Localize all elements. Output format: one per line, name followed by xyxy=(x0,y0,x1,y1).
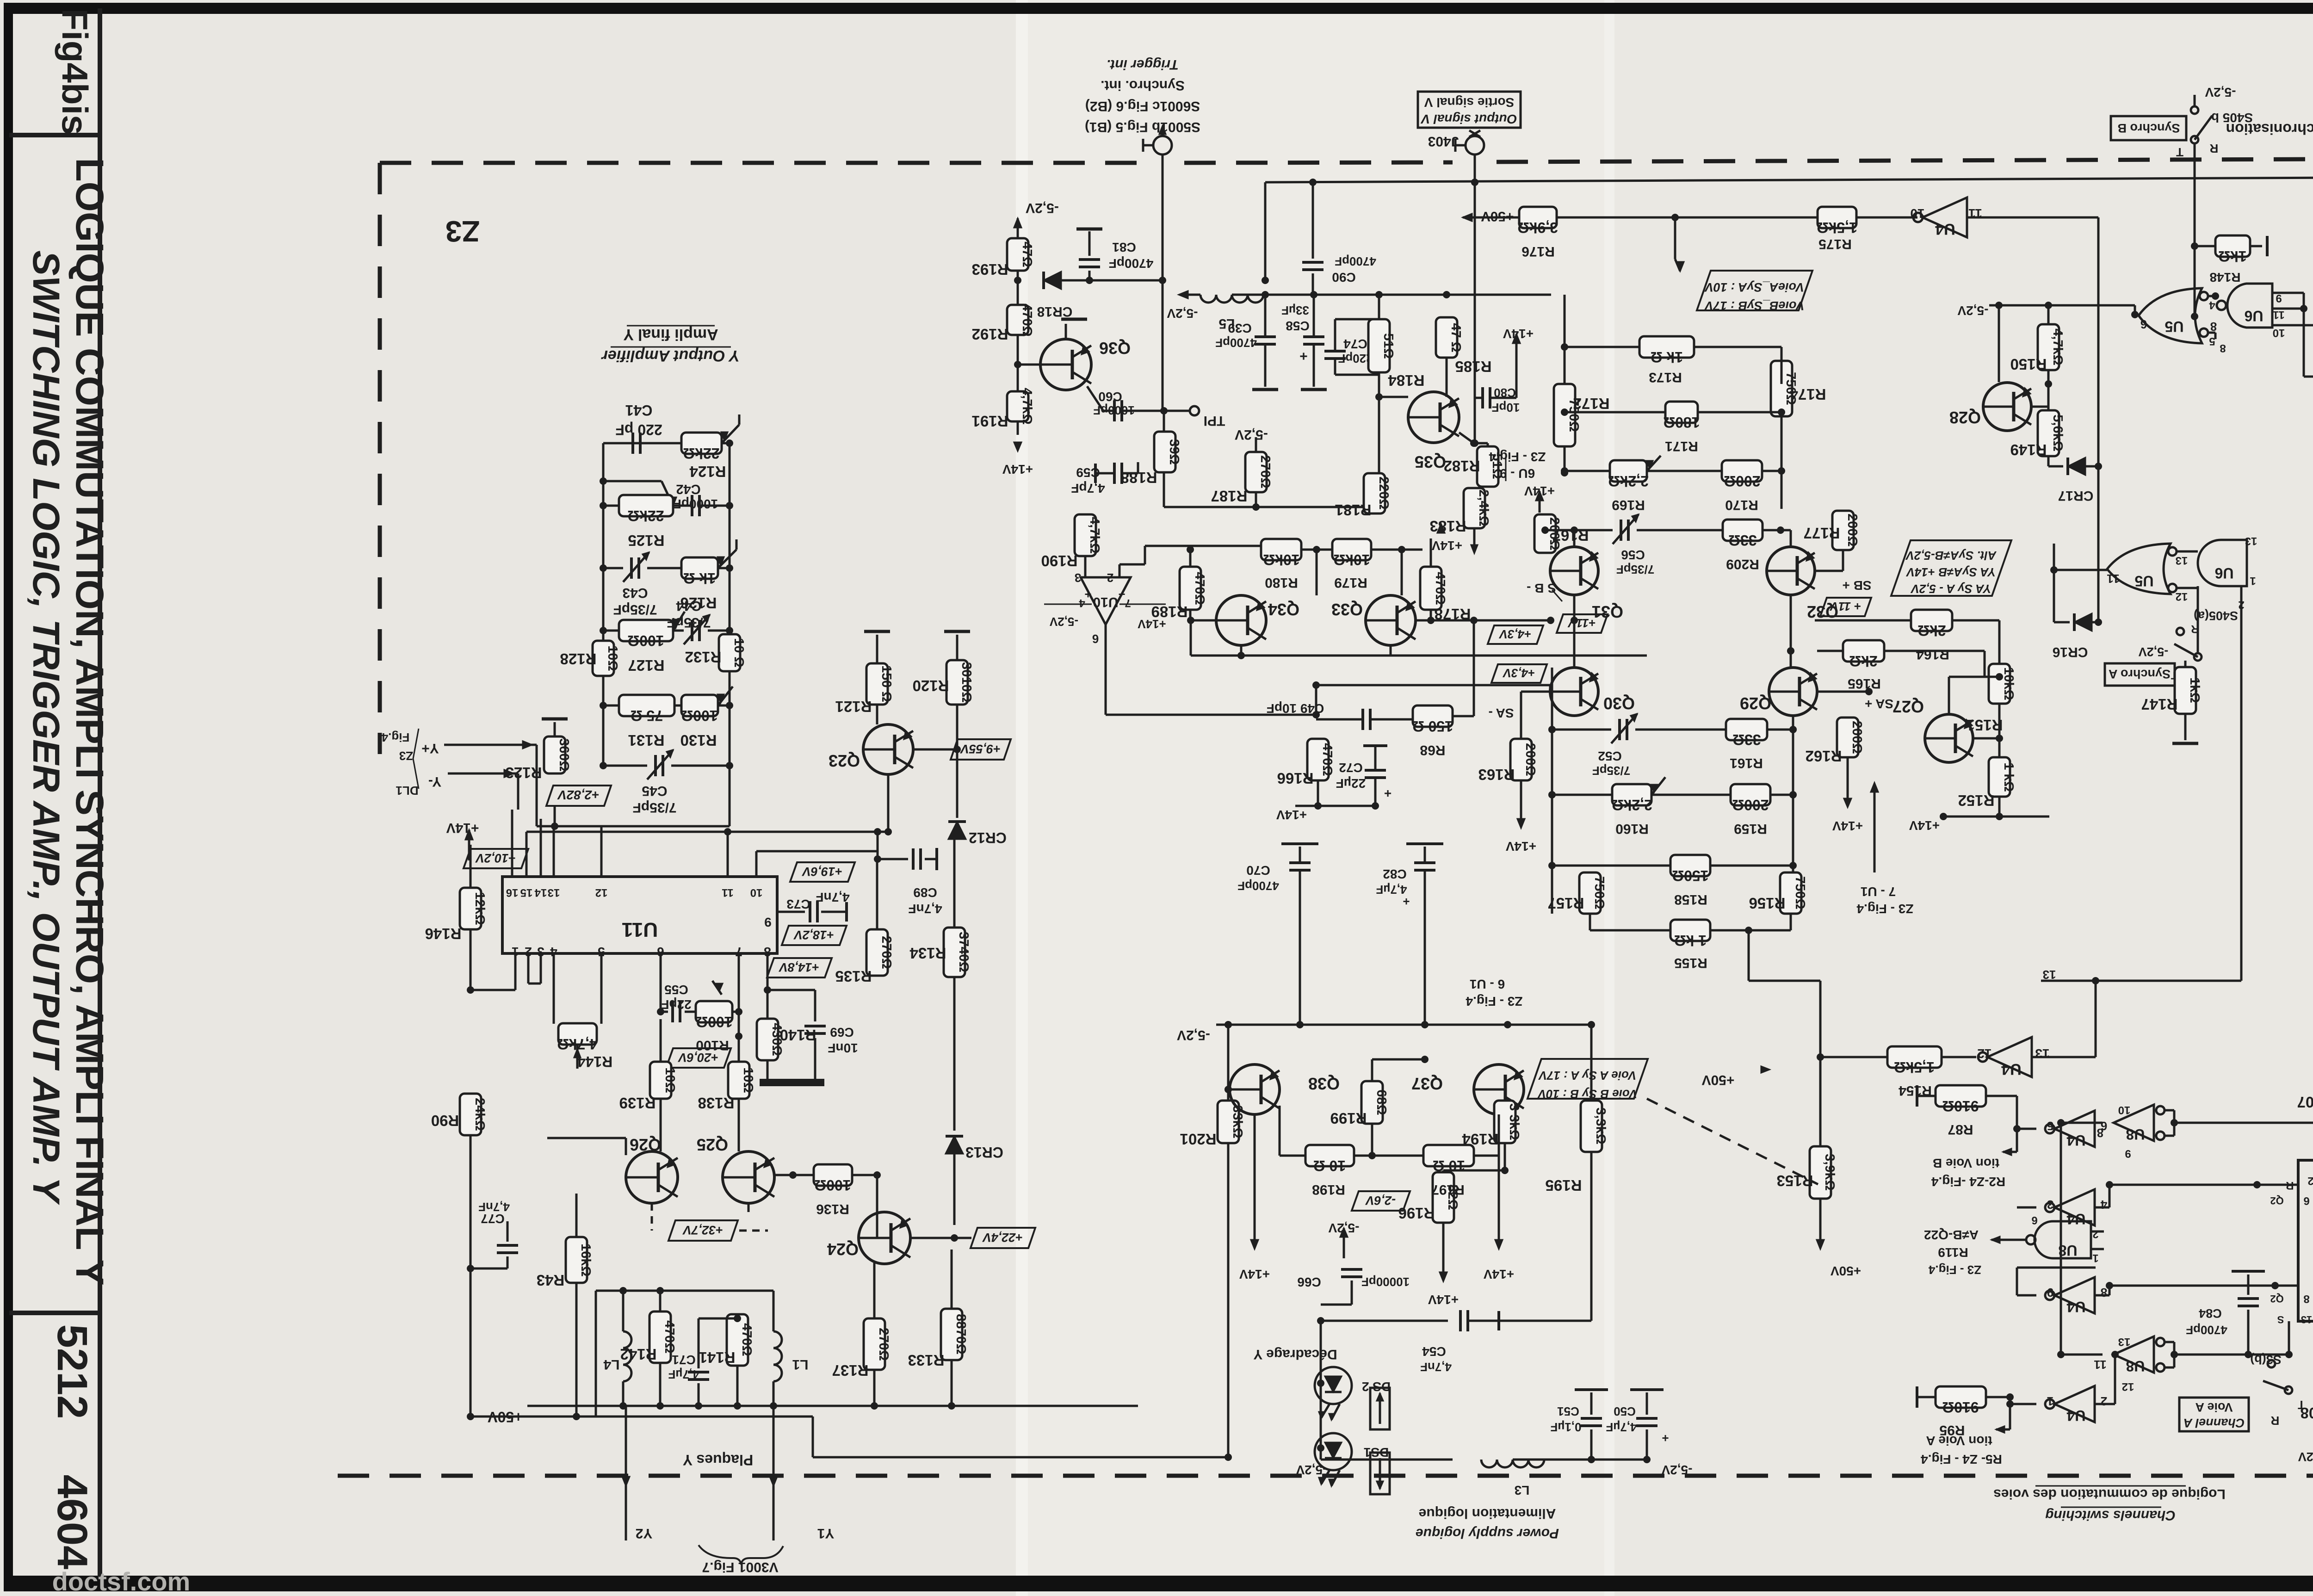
resistor R150 xyxy=(2038,324,2059,370)
svg-text:4,7kΩ: 4,7kΩ xyxy=(1020,388,1034,425)
svg-text:+14V: +14V xyxy=(1239,1267,1270,1281)
wire q31-q30 col xyxy=(1573,595,1576,668)
wire q29 col down xyxy=(1792,716,1794,914)
capacitor C60 xyxy=(1087,386,1103,411)
resistor R190 xyxy=(1075,514,1096,556)
wire R135 top xyxy=(876,859,878,929)
resistor R43 xyxy=(566,1237,587,1283)
svg-text:16: 16 xyxy=(506,886,519,899)
svg-text:3: 3 xyxy=(537,945,544,959)
svg-text:4: 4 xyxy=(2100,1198,2107,1212)
svg-text:R192: R192 xyxy=(972,326,1008,343)
svg-text:R141: R141 xyxy=(699,1349,736,1366)
svg-text:10Ω: 10Ω xyxy=(662,1067,677,1093)
wire U11 pin4 down xyxy=(553,969,555,1024)
svg-text:11: 11 xyxy=(2094,1358,2107,1372)
svg-text:9: 9 xyxy=(2047,1286,2053,1299)
NOR U5 d xyxy=(2107,544,2171,594)
wire R147 xyxy=(2184,661,2187,667)
svg-text:10kΩ: 10kΩ xyxy=(2001,667,2016,700)
capacitor C50 xyxy=(1646,1429,1648,1460)
svg-text:YA SyA≠B +14V: YA SyA≠B +14V xyxy=(1905,565,1996,579)
diode CR16 xyxy=(2074,613,2092,631)
svg-text:470Ω: 470Ω xyxy=(739,1323,754,1356)
svg-text:U11: U11 xyxy=(622,918,658,941)
wire U6a out xyxy=(2194,316,2195,317)
arrow +14V q38 xyxy=(1254,1114,1256,1240)
svg-text:C60: C60 xyxy=(1098,390,1122,404)
svg-text:Q2: Q2 xyxy=(2270,1195,2283,1206)
wire U4d xyxy=(2017,1206,2036,1209)
svg-text:-5,2V: -5,2V xyxy=(1296,1463,1327,1477)
wire R134 top xyxy=(953,838,956,928)
arrow R100 adjust xyxy=(712,981,722,995)
arrow +14V left xyxy=(465,830,473,840)
wire R199 xyxy=(1371,1124,1373,1156)
transistor Q35 xyxy=(1408,392,1459,443)
arrow +14V col xyxy=(1017,421,1019,435)
wire led link xyxy=(1351,1281,1353,1305)
svg-text:33µF: 33µF xyxy=(1281,303,1309,317)
svg-text:4700pF: 4700pF xyxy=(1109,256,1154,271)
resistor R123 xyxy=(544,736,565,773)
svg-text:+4,3V: +4,3V xyxy=(1502,666,1535,680)
svg-text:1 kΩ: 1 kΩ xyxy=(2001,762,2016,792)
resistor R144 xyxy=(558,1023,597,1045)
svg-text:R155: R155 xyxy=(1674,955,1707,971)
svg-text:+10,2V: +10,2V xyxy=(475,851,516,865)
dashed frame bottom xyxy=(338,1474,2313,1478)
svg-text:+14V: +14V xyxy=(1484,1267,1514,1281)
svg-text:R185: R185 xyxy=(1455,358,1492,375)
svg-text:Trigger int.: Trigger int. xyxy=(1107,57,1179,72)
resistor R171 xyxy=(1665,402,1698,423)
wire led bottom xyxy=(1321,1459,1453,1461)
svg-text:6: 6 xyxy=(1092,632,1099,646)
resistor R164 xyxy=(1911,610,1952,631)
svg-text:2: 2 xyxy=(2307,1175,2313,1187)
trimmer C56 xyxy=(1620,520,1622,541)
resistor R187 xyxy=(1245,452,1267,492)
svg-text:+14V: +14V xyxy=(1524,484,1555,498)
svg-text:47Ω: 47Ω xyxy=(1020,241,1034,267)
svg-text:1k Ω: 1k Ω xyxy=(683,570,716,587)
wire connector down xyxy=(1162,155,1164,409)
svg-text:Voie B Sy B : 10V: Voie B Sy B : 10V xyxy=(1537,1087,1637,1101)
svg-text:U4: U4 xyxy=(2066,1211,2085,1227)
wire U6c out r147 xyxy=(2197,586,2199,653)
callout +4,3V a xyxy=(1488,625,1543,644)
svg-text:+14V: +14V xyxy=(1832,819,1863,833)
svg-text:10 Ω: 10 Ω xyxy=(1313,1157,1346,1174)
svg-text:150 Ω: 150 Ω xyxy=(1412,718,1453,735)
svg-text:13: 13 xyxy=(2176,554,2188,567)
svg-text:C52: C52 xyxy=(1598,749,1621,763)
svg-text:Décadrage Y: Décadrage Y xyxy=(1253,1347,1337,1362)
wire Q34-Q33 emitters xyxy=(1240,645,1243,656)
svg-text:13: 13 xyxy=(2301,1314,2312,1325)
svg-text:7/35pF: 7/35pF xyxy=(632,800,676,815)
svg-text:8: 8 xyxy=(2303,1293,2309,1305)
svg-text:1kΩ: 1kΩ xyxy=(2218,248,2246,265)
svg-text:6: 6 xyxy=(2140,317,2147,331)
wire -5,2V q28 xyxy=(1989,305,2144,311)
trimmer C52 xyxy=(1618,719,1621,740)
inductor L4 xyxy=(623,1331,631,1348)
resistor R194 xyxy=(1494,1101,1515,1143)
svg-text:22kΩ: 22kΩ xyxy=(683,445,719,462)
wire Q36 base xyxy=(1018,364,1040,366)
svg-text:Z3 - Fig.4: Z3 - Fig.4 xyxy=(1466,994,1522,1008)
capacitor C82 xyxy=(1424,847,1426,861)
wire R189 bottom xyxy=(1189,610,1192,620)
wire L5 bus xyxy=(1232,294,1551,296)
inverter U4 d xyxy=(2054,1189,2095,1225)
svg-text:8: 8 xyxy=(2101,1286,2107,1299)
arrow R160 adjust xyxy=(1651,777,1665,795)
wire R146 bottom xyxy=(470,929,472,990)
diode CR12 xyxy=(948,822,966,839)
wire +50V rail xyxy=(527,1405,1138,1407)
svg-text:4,7kΩ: 4,7kΩ xyxy=(1087,517,1102,554)
svg-text:R87: R87 xyxy=(1948,1122,1973,1137)
U11 pin 5 xyxy=(600,953,603,969)
wire ladder left rail xyxy=(602,443,605,766)
svg-text:CR12: CR12 xyxy=(969,829,1007,846)
svg-text:Z3 - Fig.4: Z3 - Fig.4 xyxy=(1928,1263,1981,1277)
wire y1341 to R164 xyxy=(1815,619,1911,622)
svg-text:270Ω: 270Ω xyxy=(879,936,894,969)
diode CR17 xyxy=(2068,458,2085,475)
resistor R181 xyxy=(1364,473,1385,513)
wire R157 link xyxy=(1552,913,1590,914)
U11 pin 12 xyxy=(600,861,603,877)
svg-text:12: 12 xyxy=(595,886,608,899)
resistor R128 xyxy=(593,641,614,676)
wire y1407 R165 xyxy=(1817,650,1843,652)
svg-text:R137: R137 xyxy=(832,1362,869,1379)
wire Q38 emitter xyxy=(1280,1105,1300,1106)
svg-text:R184: R184 xyxy=(1388,372,1425,389)
wire Q33-R178 base xyxy=(1416,619,1431,622)
wire R201 xyxy=(1227,1025,1230,1101)
label Voie A box xyxy=(2179,1398,2249,1431)
svg-text:11: 11 xyxy=(2107,572,2120,586)
wire R133 xyxy=(951,1250,953,1309)
svg-text:10kΩ: 10kΩ xyxy=(1263,551,1299,568)
svg-text:2: 2 xyxy=(2092,1228,2098,1240)
svg-text:R90: R90 xyxy=(431,1112,459,1129)
gnd R120 xyxy=(956,635,959,660)
callout +11V right xyxy=(1820,598,1871,616)
wire TP1 col down xyxy=(1163,411,1165,507)
svg-text:R95: R95 xyxy=(1939,1423,1965,1438)
arrow 6U1 xyxy=(1507,814,1508,965)
svg-text:2: 2 xyxy=(1107,571,1113,585)
wire CR13 col xyxy=(953,977,956,1131)
wire Q26 collector box xyxy=(625,1138,627,1155)
svg-text:U4: U4 xyxy=(2066,1299,2085,1315)
svg-text:Q31: Q31 xyxy=(1592,602,1623,621)
resistor R147 xyxy=(2175,667,2196,714)
callout +9,55V xyxy=(951,739,1011,760)
resistor R131 xyxy=(619,695,674,716)
wire R162 xyxy=(1847,704,1848,718)
resistor R132 xyxy=(719,634,740,671)
svg-text:100Ω: 100Ω xyxy=(696,1014,732,1030)
wire bottom ladder xyxy=(537,825,730,828)
svg-text:100Ω: 100Ω xyxy=(814,1177,851,1194)
svg-text:Output signal V: Output signal V xyxy=(1420,112,1517,126)
IC U11 xyxy=(502,877,777,953)
wire U8a in xyxy=(2045,1122,2061,1123)
resistor R121 xyxy=(866,663,888,705)
capacitor C42 xyxy=(691,495,693,516)
wire R127 row xyxy=(603,630,619,632)
svg-text:47 Ω: 47 Ω xyxy=(1448,323,1463,353)
wire U10 out xyxy=(1105,625,1107,715)
svg-text:220Ω: 220Ω xyxy=(1376,476,1391,510)
switch S405b xyxy=(2191,136,2198,143)
svg-text:-5,2V: -5,2V xyxy=(1026,200,1059,216)
resistor R125 xyxy=(619,495,673,516)
wire Q37 to C54 xyxy=(1591,1320,1592,1321)
svg-text:C82: C82 xyxy=(1383,867,1406,881)
svg-text:1: 1 xyxy=(2250,575,2256,587)
svg-text:R130: R130 xyxy=(680,732,717,749)
svg-text:2,4kΩ: 2,4kΩ xyxy=(1476,489,1491,526)
svg-text:10Ω: 10Ω xyxy=(605,645,620,671)
dashed pointer xyxy=(1647,1099,1818,1184)
svg-text:470Ω: 470Ω xyxy=(662,1320,677,1354)
wire Q38 base xyxy=(1228,1089,1230,1090)
NAND U6 c xyxy=(2198,540,2247,586)
svg-text:C89: C89 xyxy=(913,885,937,900)
dashed frame top xyxy=(380,161,1143,165)
wire R176 tap xyxy=(1674,217,1676,259)
wire Q35 collector xyxy=(1446,392,1447,397)
transistor Q36 xyxy=(1040,339,1091,390)
svg-text:C50: C50 xyxy=(1614,1404,1636,1418)
wire R169 link xyxy=(1565,470,1610,471)
svg-text:12: 12 xyxy=(2176,590,2188,603)
arrow R169 adjust xyxy=(1647,456,1661,471)
svg-text:100Ω: 100Ω xyxy=(681,707,717,724)
wire R158 row xyxy=(1552,865,1670,867)
svg-text:R149: R149 xyxy=(2010,441,2047,458)
wire R176-R175 xyxy=(1557,217,1818,219)
svg-text:3: 3 xyxy=(1075,571,1081,585)
wire C45 row xyxy=(603,765,647,767)
wire R193-R192 xyxy=(1017,271,1019,305)
svg-text:R146: R146 xyxy=(425,925,462,942)
capacitor C73 xyxy=(809,901,811,922)
svg-text:0,1µF: 0,1µF xyxy=(1550,1420,1581,1434)
wire +14V arrow2 xyxy=(1536,491,1543,501)
wire y2740 bus xyxy=(1254,1267,1255,1268)
wire -5,2V col xyxy=(1255,437,1257,452)
svg-text:220 pF: 220 pF xyxy=(615,421,662,438)
arrow R144 adjust xyxy=(576,1045,579,1069)
svg-text:1000pF: 1000pF xyxy=(1093,403,1135,417)
svg-text:S3(b): S3(b) xyxy=(2250,1353,2282,1367)
transistor Q38 xyxy=(1230,1064,1280,1114)
inverter U4 c xyxy=(2054,1111,2095,1147)
svg-text:+14V: +14V xyxy=(1002,462,1033,476)
U11 pin 16 xyxy=(511,861,513,877)
svg-text:12kΩ: 12kΩ xyxy=(472,892,487,925)
svg-text:200Ω: 200Ω xyxy=(1523,743,1538,776)
resistor R100 xyxy=(696,1001,732,1022)
wire U8c out xyxy=(2003,1239,2025,1241)
capacitor C84 xyxy=(2248,1295,2249,1321)
svg-text:R158: R158 xyxy=(1674,892,1707,907)
wire Q27 base col xyxy=(1868,726,1869,738)
svg-text:R147: R147 xyxy=(2141,696,2178,713)
wire x4536 down xyxy=(2097,466,2100,622)
svg-text:R120: R120 xyxy=(913,677,949,694)
wire bottom bus q36 xyxy=(1164,506,1366,508)
svg-text:+19,6V: +19,6V xyxy=(802,865,842,878)
resistor R127 xyxy=(619,620,673,641)
svg-text:4700pF: 4700pF xyxy=(1237,879,1279,893)
svg-text:R169: R169 xyxy=(1612,497,1645,513)
wire C41-R124 xyxy=(603,442,681,445)
svg-text:SA -: SA - xyxy=(1489,706,1514,720)
svg-text:R156: R156 xyxy=(1749,895,1786,912)
svg-text:-2,6V: -2,6V xyxy=(1365,1194,1396,1207)
resistor R158 xyxy=(1670,855,1710,876)
svg-text:270Ω: 270Ω xyxy=(876,1328,891,1361)
capacitor C74 xyxy=(1378,295,1380,319)
svg-text:Q25: Q25 xyxy=(697,1135,728,1154)
svg-text:3: 3 xyxy=(2047,1198,2053,1212)
svg-text:R163: R163 xyxy=(1478,766,1515,783)
wire -5,2V bus xyxy=(1216,1024,1522,1026)
svg-text:10 Ω: 10 Ω xyxy=(731,638,746,668)
svg-text:Voie A: Voie A xyxy=(2195,1400,2233,1414)
svg-text:C69: C69 xyxy=(830,1025,853,1039)
svg-text:200Ω: 200Ω xyxy=(1845,513,1860,547)
wire U4b out xyxy=(2032,1056,2096,1058)
svg-text:11: 11 xyxy=(2273,309,2284,321)
transistor Q33 xyxy=(1366,595,1416,645)
svg-text:R197: R197 xyxy=(1431,1182,1465,1197)
resistor R134 xyxy=(944,928,965,977)
capacitor C89 xyxy=(874,855,881,863)
wire Q27 collector xyxy=(1948,677,1950,714)
wire Q37 base R194 xyxy=(1505,1089,1524,1090)
svg-text:C56: C56 xyxy=(1621,548,1645,562)
transistor Q32 xyxy=(1767,547,1815,595)
svg-text:4,7µF: 4,7µF xyxy=(668,1367,699,1381)
inverter U4 e xyxy=(2054,1277,2095,1313)
resistor R189 xyxy=(1180,567,1201,610)
svg-text:R170: R170 xyxy=(1725,497,1758,513)
svg-text:Q27: Q27 xyxy=(1892,697,1924,716)
transistor Q24 xyxy=(859,1212,910,1264)
svg-text:+14V: +14V xyxy=(1909,818,1940,833)
wire Q29 emitter xyxy=(1815,701,1848,704)
svg-text:C43: C43 xyxy=(622,585,648,600)
callout +11V left xyxy=(1557,614,1608,633)
transistor Q29 xyxy=(1769,668,1817,716)
svg-text:Channel A: Channel A xyxy=(2183,1416,2245,1430)
callout VoieA 17V xyxy=(1528,1059,1648,1099)
wire q32-q29 col xyxy=(1790,595,1792,668)
svg-text:+50V: +50V xyxy=(1831,1264,1861,1278)
svg-text:Q28: Q28 xyxy=(1949,408,1981,427)
wire U5c pins xyxy=(2208,295,2215,297)
arrow -5,2V col xyxy=(1014,218,1021,228)
U11 pin 7 xyxy=(738,953,740,969)
svg-text:S B -: S B - xyxy=(1527,581,1556,595)
svg-text:Q33: Q33 xyxy=(1331,600,1363,619)
svg-text:Ampli final Y: Ampli final Y xyxy=(623,326,718,343)
svg-text:4: 4 xyxy=(550,945,557,959)
svg-text:C45: C45 xyxy=(642,783,667,798)
transistor Q34 xyxy=(1216,595,1266,645)
svg-text:+50V: +50V xyxy=(1702,1072,1735,1088)
svg-text:R175: R175 xyxy=(1818,236,1852,252)
svg-text:L1: L1 xyxy=(792,1357,808,1372)
wire Q38 emitter2 xyxy=(1274,1106,1280,1107)
wire R155 down xyxy=(1748,930,1750,981)
resistor R156 xyxy=(1780,872,1801,914)
svg-text:U4: U4 xyxy=(2066,1407,2085,1424)
svg-text:14: 14 xyxy=(534,886,547,899)
svg-text:R157: R157 xyxy=(1548,895,1584,912)
svg-text:C74: C74 xyxy=(1343,337,1367,351)
svg-text:+2,82V: +2,82V xyxy=(557,788,600,802)
svg-text:−: − xyxy=(1118,588,1125,601)
wire C56 row xyxy=(1545,529,1613,532)
svg-text:4,7nF: 4,7nF xyxy=(908,902,942,916)
U11 pin 1 xyxy=(514,953,517,969)
svg-text:4,7µF: 4,7µF xyxy=(1606,1420,1637,1434)
gnd Q36 collector xyxy=(1065,324,1067,339)
svg-text:33Ω: 33Ω xyxy=(1728,532,1756,549)
wire U4 top in xyxy=(1856,217,1917,219)
svg-text:Q26: Q26 xyxy=(630,1135,661,1154)
svg-text:L3: L3 xyxy=(1515,1483,1530,1497)
inverter U4 bottom xyxy=(1987,1037,2032,1077)
svg-text:Q24: Q24 xyxy=(827,1240,859,1259)
inverter U8 b xyxy=(2114,1336,2154,1373)
diode CR13 xyxy=(946,1136,963,1154)
wire bus y2779 xyxy=(2109,1285,2298,1287)
svg-text:R127: R127 xyxy=(628,657,665,674)
label Synchro A box xyxy=(2105,663,2175,686)
wire R182 link xyxy=(1474,442,1488,445)
resistor R138 xyxy=(728,1062,749,1099)
svg-text:-5,2V: -5,2V xyxy=(1049,615,1078,629)
wire R192-R191 xyxy=(1017,335,1019,391)
capacitor C54 xyxy=(1459,1310,1462,1331)
wire q30 base col xyxy=(1550,691,1551,692)
resistor R90 xyxy=(460,1094,481,1135)
U11 pin 2 xyxy=(527,953,530,969)
svg-text:U5: U5 xyxy=(2165,318,2184,335)
svg-text:10kΩ: 10kΩ xyxy=(1333,551,1370,568)
wire R160 row xyxy=(1552,794,1612,796)
box arrow down xyxy=(1370,1453,1390,1494)
svg-text:tion Voie B: tion Voie B xyxy=(1933,1156,1999,1170)
svg-text:360Ω: 360Ω xyxy=(557,738,571,772)
callout +19,6V xyxy=(790,862,855,882)
svg-text:Z3: Z3 xyxy=(399,749,413,763)
svg-text:VoieB_SyB : 17V: VoieB_SyB : 17V xyxy=(1704,299,1804,313)
